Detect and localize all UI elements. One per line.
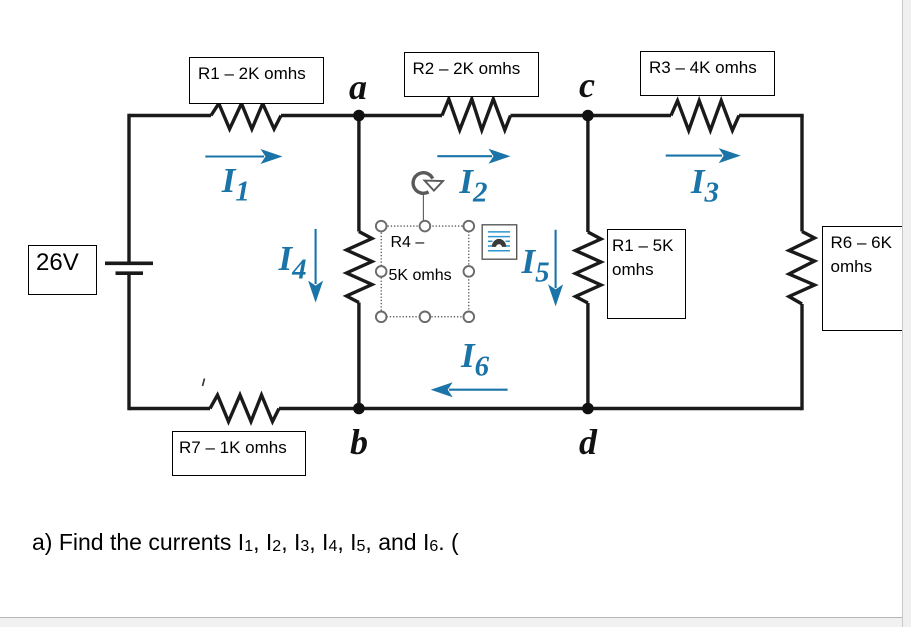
value label box R6 - 6K omhs: [822, 226, 906, 331]
wire top-right segment: [739, 114, 804, 117]
current arrow I2: [437, 149, 510, 164]
current arrow I6: [431, 382, 508, 397]
value label box R1 - 2K omhs: [189, 57, 324, 104]
source label box 26V: [28, 245, 97, 295]
current arrow I4: [308, 229, 323, 303]
value label box R5 (R1 - 5K omhs): [607, 229, 686, 319]
wire left side upper: [127, 114, 130, 262]
value label box R2 - 2K omhs: [404, 52, 539, 97]
node a junction dot: [353, 110, 365, 122]
value text of R4 text box line 2: [389, 268, 452, 284]
node b junction dot: [353, 403, 365, 415]
battery 26V short plate: [116, 271, 144, 275]
value text of R4 text box line 1: [391, 235, 425, 251]
window bottom edge strip: [0, 617, 902, 627]
wire node c to R5: [586, 116, 589, 233]
resistor R5 (labelled R1 - 5K): [576, 232, 602, 303]
current arrow I1: [205, 149, 282, 164]
layout options button: [482, 225, 517, 259]
wire top between R2 and R3: [511, 114, 672, 117]
current label I2: [459, 164, 487, 208]
resistor R4: [347, 232, 373, 303]
selection handles: [376, 221, 474, 322]
wire right side upper: [800, 116, 803, 232]
current arrow I3: [666, 148, 741, 163]
wire top between R1 and R2: [281, 114, 442, 117]
wire R5 to node d: [586, 303, 589, 409]
node c junction dot: [582, 110, 594, 122]
wire right side lower: [800, 304, 803, 410]
window right edge strip: [902, 0, 911, 627]
value label box R7 - 1K omhs: [172, 431, 306, 476]
selection rotate handle: [413, 173, 443, 194]
selection connector line: [422, 195, 424, 222]
current label I1: [222, 163, 250, 207]
resistor R2: [442, 99, 511, 130]
current arrow I5: [548, 230, 563, 307]
resistor R7: [210, 395, 279, 422]
current label I4: [279, 241, 307, 285]
node d junction dot: [582, 403, 594, 415]
battery 26V long plate: [105, 261, 153, 265]
wire top-left segment: [129, 114, 211, 117]
question text: [32, 529, 459, 556]
current label I3: [691, 164, 719, 208]
node c label: [579, 67, 595, 103]
wire bottom-right segment: [279, 407, 802, 410]
node d label: [579, 424, 597, 460]
resistor R1: [211, 104, 281, 130]
current label I5: [522, 244, 550, 288]
wire node a to R4: [357, 116, 360, 232]
selection dashed border of R4 text box: [381, 226, 469, 317]
resistor R3: [671, 101, 739, 131]
node b label: [350, 424, 368, 460]
node a label: [349, 69, 367, 105]
stray apostrophe mark: [203, 379, 205, 387]
wire R4 to node b: [357, 303, 360, 409]
current label I6: [461, 338, 489, 382]
value label box R3 - 4K omhs: [640, 51, 775, 96]
wire left side lower: [127, 275, 130, 410]
resistor R6: [789, 232, 815, 305]
wire bottom-left segment: [129, 407, 210, 410]
